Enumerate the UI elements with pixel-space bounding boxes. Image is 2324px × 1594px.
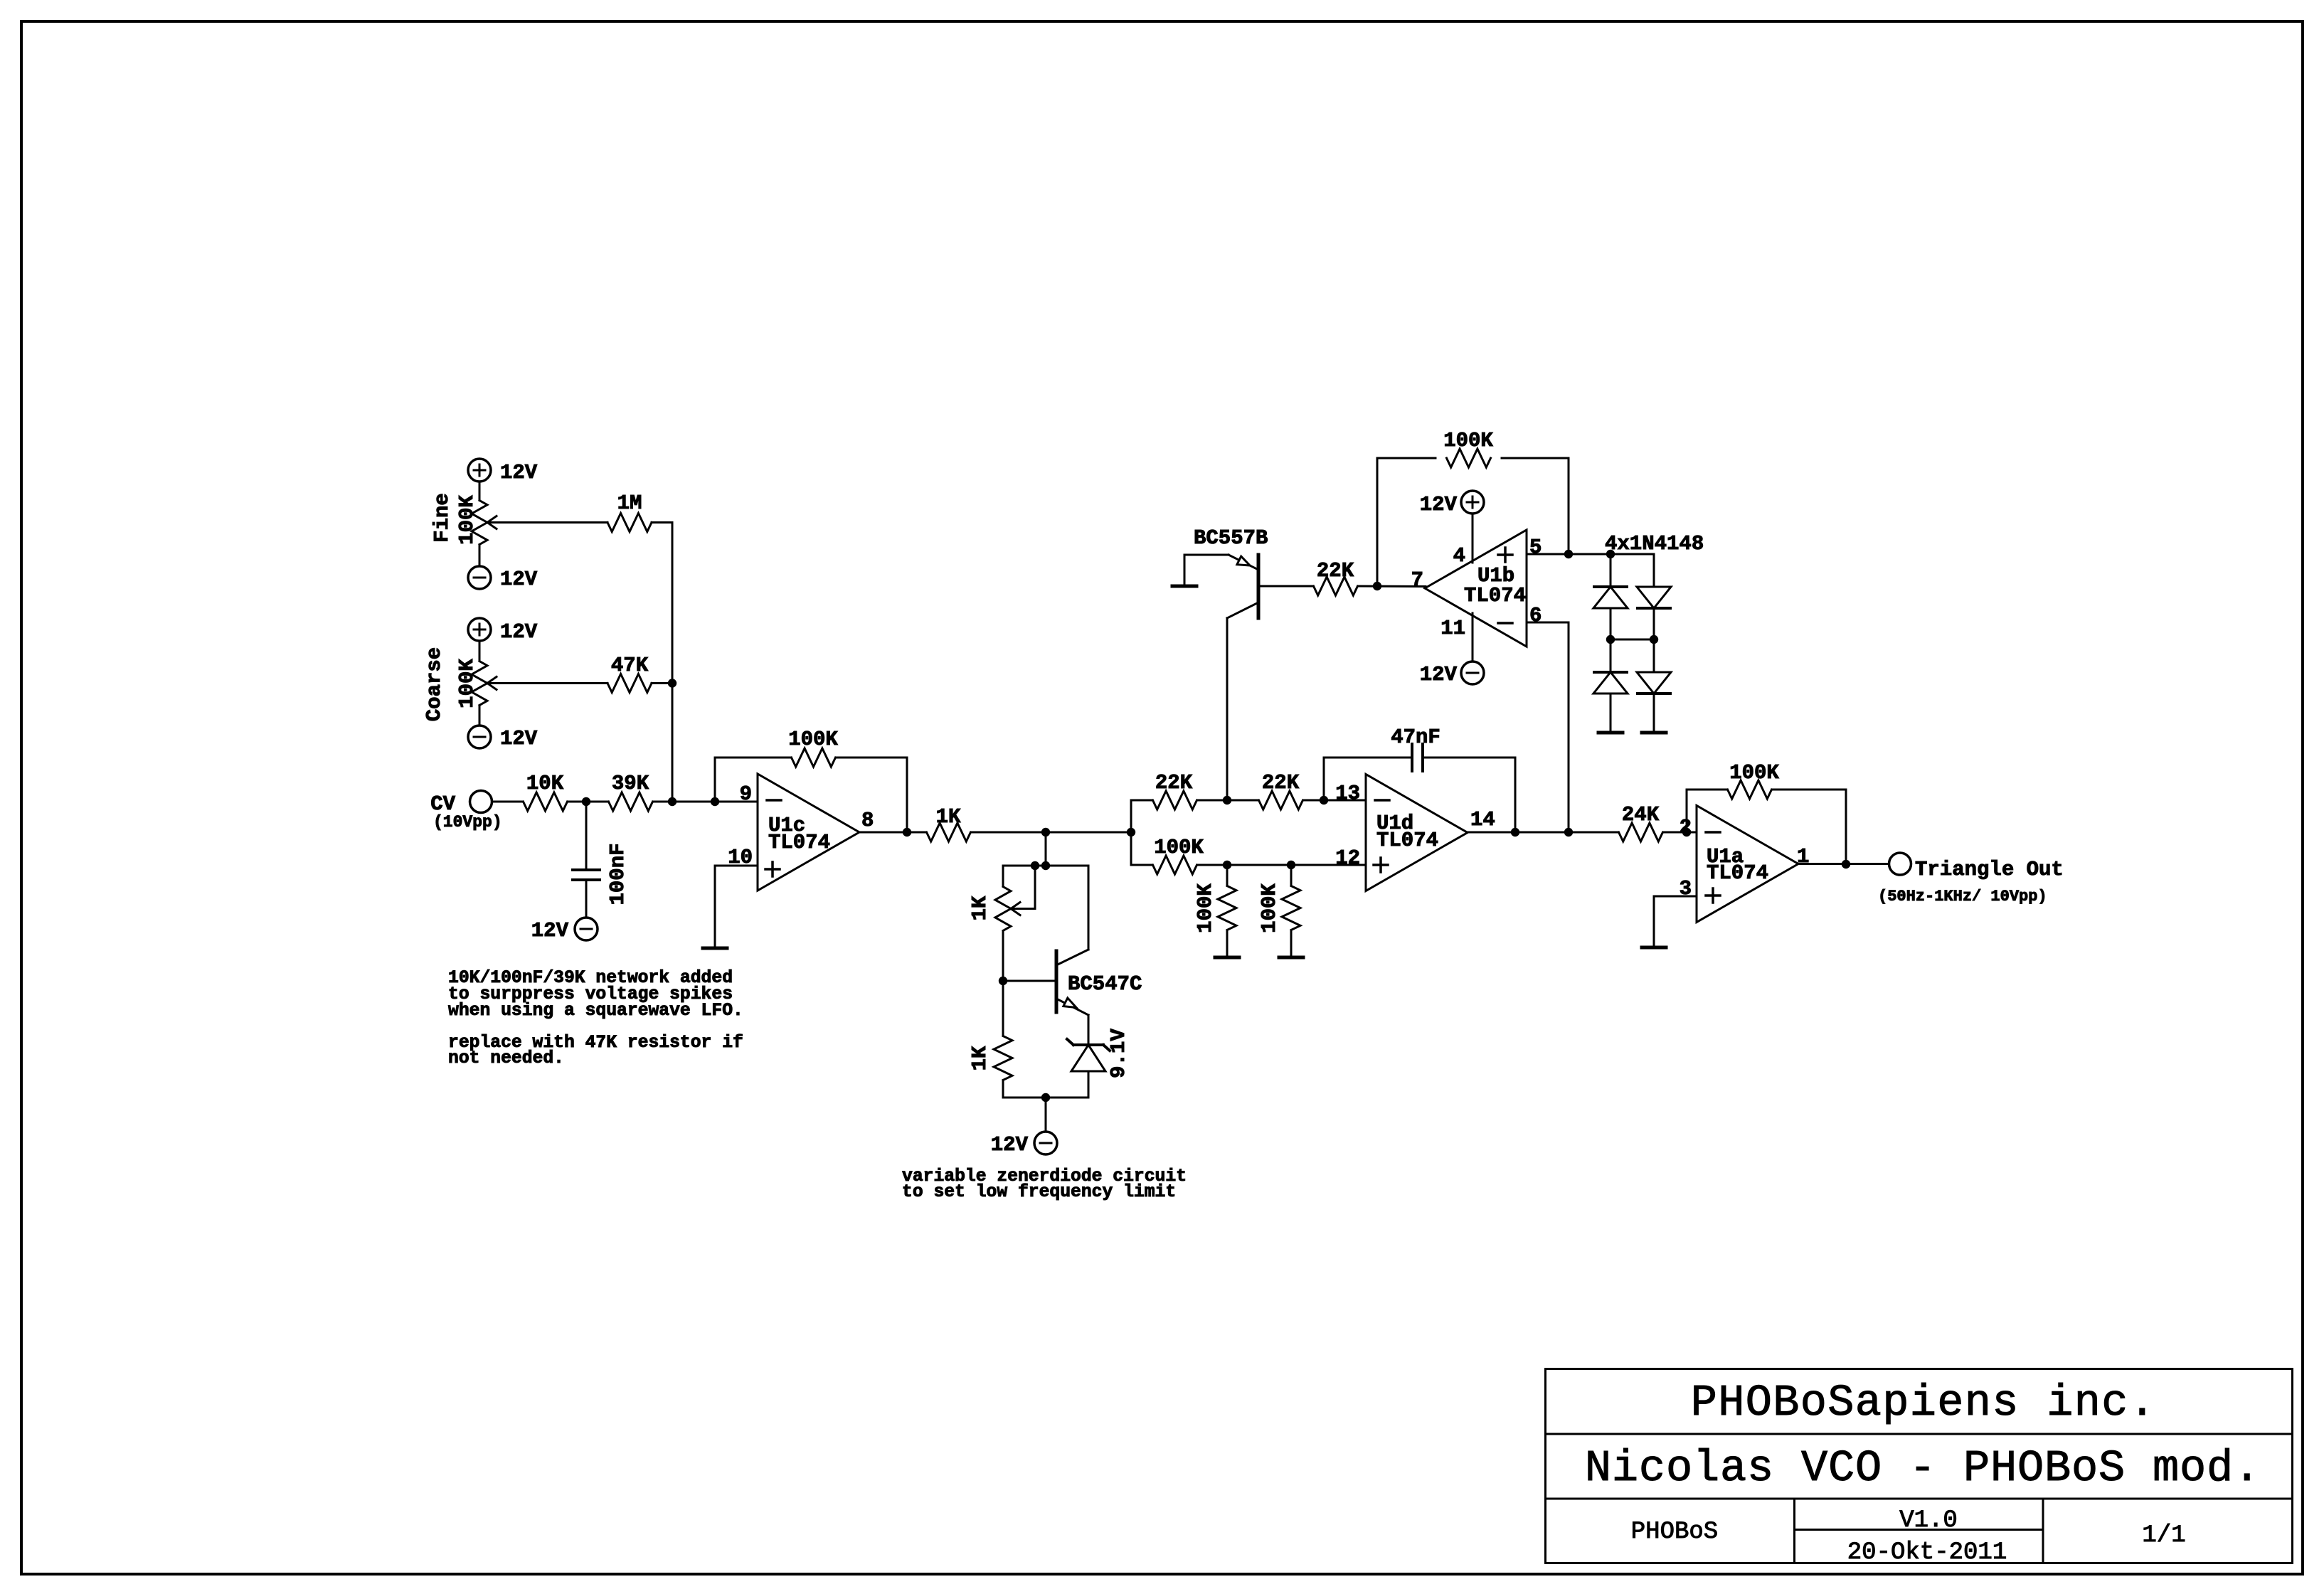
svg-text:1K: 1K xyxy=(936,805,961,829)
svg-text:100nF: 100nF xyxy=(606,843,630,905)
svg-text:1K: 1K xyxy=(968,1046,992,1070)
svg-text:6: 6 xyxy=(1529,604,1542,627)
svg-text:Coarse: Coarse xyxy=(423,647,446,721)
svg-text:22K: 22K xyxy=(1262,771,1300,795)
svg-text:22K: 22K xyxy=(1155,771,1193,795)
svg-text:14: 14 xyxy=(1470,808,1495,831)
svg-text:(50Hz-1KHz/ 10Vpp): (50Hz-1KHz/ 10Vpp) xyxy=(1878,888,2047,905)
svg-text:BC557B: BC557B xyxy=(1194,526,1268,550)
svg-text:PHOBoS: PHOBoS xyxy=(1631,1519,1718,1546)
svg-text:100K: 100K xyxy=(1258,883,1281,933)
svg-text:9.1V: 9.1V xyxy=(1107,1029,1130,1078)
svg-text:100K: 100K xyxy=(1729,761,1779,785)
svg-text:TL074: TL074 xyxy=(1464,584,1526,607)
svg-text:(10Vpp): (10Vpp) xyxy=(433,813,502,831)
svg-text:Fine: Fine xyxy=(430,493,454,543)
svg-text:12V: 12V xyxy=(531,919,569,942)
svg-text:100K: 100K xyxy=(455,659,479,708)
svg-text:1: 1 xyxy=(1797,845,1809,868)
svg-text:1/1: 1/1 xyxy=(2142,1522,2185,1549)
svg-text:47nF: 47nF xyxy=(1391,726,1440,749)
svg-text:8: 8 xyxy=(861,809,874,832)
svg-text:TL074: TL074 xyxy=(1376,829,1438,852)
svg-text:12V: 12V xyxy=(500,620,538,644)
svg-text:100K: 100K xyxy=(1443,429,1493,452)
svg-text:V1.0: V1.0 xyxy=(1899,1507,1958,1534)
svg-text:to set low frequency limit: to set low frequency limit xyxy=(902,1182,1176,1202)
svg-text:4x1N4148: 4x1N4148 xyxy=(1605,532,1704,556)
svg-text:1M: 1M xyxy=(617,492,642,515)
svg-text:Nicolas VCO - PHOBoS mod.: Nicolas VCO - PHOBoS mod. xyxy=(1585,1443,2261,1494)
svg-text:12V: 12V xyxy=(500,568,538,591)
svg-text:2: 2 xyxy=(1680,816,1692,839)
svg-text:39K: 39K xyxy=(612,772,649,795)
svg-text:TL074: TL074 xyxy=(1707,861,1768,885)
svg-text:22K: 22K xyxy=(1317,559,1354,583)
svg-text:10K: 10K xyxy=(526,772,564,795)
svg-text:9: 9 xyxy=(740,782,752,806)
svg-text:12: 12 xyxy=(1335,846,1360,870)
svg-text:100K: 100K xyxy=(1154,836,1204,859)
svg-text:12V: 12V xyxy=(500,727,538,750)
svg-text:12V: 12V xyxy=(991,1133,1029,1157)
svg-text:when using a squarewave LFO.: when using a squarewave LFO. xyxy=(448,1001,743,1021)
svg-text:BC547C: BC547C xyxy=(1068,972,1142,996)
svg-text:24K: 24K xyxy=(1622,803,1660,827)
svg-text:100K: 100K xyxy=(1194,883,1217,933)
svg-text:20-Okt-2011: 20-Okt-2011 xyxy=(1847,1539,2007,1566)
svg-text:PHOBoSapiens inc.: PHOBoSapiens inc. xyxy=(1691,1378,2157,1428)
svg-text:12V: 12V xyxy=(1420,493,1458,516)
svg-text:11: 11 xyxy=(1440,617,1465,640)
svg-text:100K: 100K xyxy=(455,495,479,545)
svg-text:12V: 12V xyxy=(1420,663,1458,686)
svg-text:47K: 47K xyxy=(611,654,649,677)
svg-text:100K: 100K xyxy=(788,728,838,751)
svg-text:1K: 1K xyxy=(968,896,992,920)
svg-text:12V: 12V xyxy=(500,461,538,484)
svg-text:not needed.: not needed. xyxy=(448,1048,564,1068)
svg-text:4: 4 xyxy=(1453,544,1465,568)
svg-text:7: 7 xyxy=(1411,568,1423,592)
svg-text:5: 5 xyxy=(1529,536,1542,559)
svg-text:13: 13 xyxy=(1335,782,1360,805)
svg-text:Triangle Out: Triangle Out xyxy=(1915,858,2064,881)
svg-text:TL074: TL074 xyxy=(768,831,830,854)
